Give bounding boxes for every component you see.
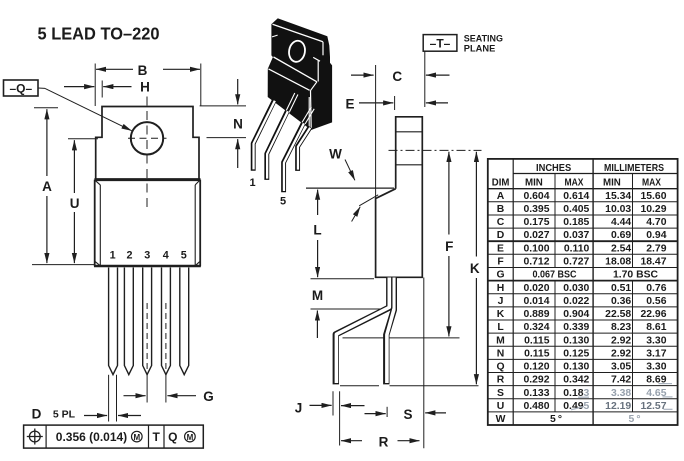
lead 5 front [180, 268, 189, 375]
M modifier 2 [185, 431, 196, 442]
svg-text:0.36: 0.36 [611, 296, 631, 307]
svg-text:SEATING: SEATING [464, 33, 503, 43]
svg-text:2.54: 2.54 [611, 243, 631, 254]
svg-text:C: C [497, 217, 505, 228]
dimension G [124, 389, 214, 404]
svg-text:0.130: 0.130 [563, 362, 589, 373]
svg-text:0.480: 0.480 [523, 401, 549, 412]
dimension J [295, 391, 365, 445]
dimension R [341, 435, 420, 450]
right extension line [423, 278, 425, 449]
3D lead pin3 over-body white edges [286, 93, 298, 113]
svg-text:0.69: 0.69 [611, 230, 631, 241]
lead 4 centerline [165, 303, 167, 374]
svg-text:R: R [497, 375, 505, 386]
svg-text:K: K [470, 261, 480, 276]
3D lead pin3 [267, 111, 288, 180]
hole centerlines [128, 137, 167, 139]
svg-text:0.339: 0.339 [563, 322, 589, 333]
dimension C [351, 69, 450, 84]
svg-text:22.96: 22.96 [640, 309, 666, 320]
mounting hole [131, 122, 163, 154]
svg-text:4: 4 [163, 250, 169, 262]
leader from Q box to hole [38, 87, 45, 89]
svg-text:A: A [497, 191, 505, 202]
svg-text:INCHES: INCHES [536, 163, 571, 174]
svg-text:H: H [140, 80, 150, 95]
svg-text:T: T [153, 430, 161, 444]
3D lead pin5 [284, 123, 304, 192]
svg-text:F: F [445, 239, 453, 254]
svg-text:0.014: 0.014 [523, 296, 549, 307]
ref line bend start [311, 308, 382, 310]
svg-text:0.604: 0.604 [523, 191, 549, 202]
svg-text:N: N [233, 117, 243, 132]
svg-text:0.037: 0.037 [563, 230, 589, 241]
svg-text:E: E [497, 243, 504, 254]
datum T extension line [424, 51, 426, 107]
dimension K [470, 152, 480, 384]
svg-text:G: G [496, 270, 504, 281]
svg-text:2.92: 2.92 [611, 335, 631, 346]
lead 3 front [143, 268, 152, 375]
body top face edges [274, 57, 317, 82]
3D lead pin4 over-body white edge [308, 97, 310, 128]
lead 4 front [162, 268, 171, 375]
position symbol [27, 429, 43, 445]
front face extension line [375, 65, 377, 200]
svg-text:0.020: 0.020 [523, 283, 549, 294]
3D lead pin1 [253, 100, 275, 170]
mounting hole 3D [287, 39, 306, 63]
svg-text:MAX: MAX [642, 178, 661, 189]
svg-text:5: 5 [181, 250, 187, 262]
svg-text:MIN: MIN [525, 178, 543, 189]
svg-text:K: K [497, 309, 505, 320]
svg-text:22.58: 22.58 [605, 309, 631, 320]
svg-text:G: G [203, 389, 214, 404]
grey watermark artifacts [571, 384, 673, 410]
svg-text:0.292: 0.292 [523, 375, 549, 386]
svg-text:12.19: 12.19 [605, 401, 631, 412]
svg-text:0.51: 0.51 [611, 283, 631, 294]
svg-text:5 LEAD TO–220: 5 LEAD TO–220 [38, 24, 160, 44]
svg-text:U: U [70, 196, 80, 211]
svg-text:1: 1 [110, 250, 116, 262]
svg-text:J: J [295, 401, 303, 416]
svg-text:Q: Q [168, 430, 177, 444]
svg-text:0.115: 0.115 [524, 335, 550, 346]
svg-text:E: E [345, 97, 354, 112]
dimension L [313, 190, 321, 278]
dimension D extension lines [108, 375, 110, 422]
svg-text:0.115: 0.115 [524, 348, 550, 359]
package body silhouette [268, 19, 331, 129]
pin numbers front view [110, 250, 187, 262]
dimension H [64, 80, 150, 98]
svg-text:0.110: 0.110 [564, 243, 590, 254]
svg-text:0.125: 0.125 [563, 348, 589, 359]
tab ear mark [272, 35, 278, 37]
dimension N front [200, 79, 246, 168]
front view body [94, 180, 201, 267]
svg-text:U: U [497, 401, 505, 412]
tab right face edge [322, 42, 324, 56]
3D lead pin5 over-body white edges [302, 107, 314, 124]
svg-text:5 PL: 5 PL [53, 408, 76, 420]
feature control frame [24, 425, 204, 448]
svg-text:–T–: –T– [430, 36, 451, 50]
W line [306, 187, 394, 189]
svg-text:C: C [392, 69, 402, 84]
svg-text:L: L [497, 322, 504, 333]
svg-text:0.130: 0.130 [563, 335, 589, 346]
svg-text:0.175: 0.175 [523, 217, 549, 228]
svg-text:W: W [496, 414, 506, 425]
svg-text:0.133: 0.133 [523, 388, 549, 399]
dimension M [312, 288, 323, 338]
lead 3 centerline [146, 303, 148, 374]
svg-text:0.027: 0.027 [523, 230, 549, 241]
svg-text:MIN: MIN [603, 178, 621, 189]
svg-text:W: W [329, 147, 342, 162]
svg-text:F: F [497, 257, 503, 268]
body front-right corner edge [310, 91, 313, 129]
svg-text:0.56: 0.56 [646, 296, 666, 307]
dimension F [445, 152, 453, 337]
dimension A [32, 108, 94, 265]
svg-text:18.47: 18.47 [640, 257, 666, 268]
svg-text:0.495: 0.495 [563, 401, 589, 412]
front view tab outline [96, 107, 199, 179]
svg-text:18.08: 18.08 [605, 257, 631, 268]
lead 1 front [109, 268, 118, 375]
svg-text:M: M [496, 335, 505, 346]
svg-text:0.022: 0.022 [563, 296, 589, 307]
svg-text:0.76: 0.76 [646, 283, 666, 294]
svg-text:D: D [497, 230, 505, 241]
dimension S [365, 407, 447, 422]
3D lead pin4 [298, 127, 311, 171]
svg-text:3.05: 3.05 [611, 362, 631, 373]
svg-text:5 °: 5 ° [550, 414, 562, 425]
svg-text:2.79: 2.79 [646, 243, 666, 254]
svg-text:0.395: 0.395 [523, 204, 549, 215]
dimension B [95, 63, 201, 106]
svg-text:1.70 BSC: 1.70 BSC [613, 270, 658, 281]
svg-text:Q: Q [496, 362, 504, 373]
svg-text:8.61: 8.61 [646, 322, 666, 333]
svg-text:5: 5 [280, 196, 286, 208]
svg-text:DIM: DIM [492, 178, 510, 189]
tab notch [313, 57, 320, 61]
svg-text:R: R [379, 435, 389, 450]
svg-text:0.185: 0.185 [563, 217, 589, 228]
svg-text:1: 1 [249, 177, 255, 189]
svg-text:S: S [497, 388, 504, 399]
lead 2 front [124, 268, 133, 375]
svg-text:MAX: MAX [565, 178, 584, 189]
svg-text:PLANE: PLANE [464, 43, 496, 53]
table header lines [513, 173, 677, 175]
svg-text:3.30: 3.30 [646, 362, 666, 373]
svg-text:4.44: 4.44 [611, 217, 631, 228]
svg-text:10.03: 10.03 [605, 204, 631, 215]
svg-text:0.120: 0.120 [523, 362, 549, 373]
svg-text:4.70: 4.70 [646, 217, 666, 228]
dimension E [345, 96, 448, 112]
svg-text:J: J [498, 296, 504, 307]
tab inner lines [396, 131, 423, 133]
svg-text:0.100: 0.100 [523, 243, 549, 254]
svg-text:0.614: 0.614 [563, 191, 589, 202]
svg-text:0.405: 0.405 [563, 204, 589, 215]
svg-text:2.92: 2.92 [611, 348, 631, 359]
ref line body bottom [311, 278, 375, 280]
svg-text:0.889: 0.889 [523, 309, 549, 320]
dimension U [68, 139, 98, 263]
table row lines [488, 201, 678, 203]
svg-text:D: D [32, 406, 42, 421]
svg-text:8.23: 8.23 [611, 322, 631, 333]
svg-text:0.030: 0.030 [563, 283, 589, 294]
svg-text:0.712: 0.712 [523, 257, 549, 268]
svg-text:L: L [313, 223, 321, 238]
svg-text:M: M [312, 288, 323, 303]
svg-text:0.356 (0.014): 0.356 (0.014) [56, 430, 127, 444]
svg-text:M: M [187, 433, 194, 442]
side lead B [386, 278, 394, 385]
dimension W [329, 147, 378, 222]
svg-text:0.067 BSC: 0.067 BSC [533, 270, 577, 281]
svg-text:3.38: 3.38 [611, 388, 631, 399]
svg-text:M: M [133, 433, 140, 442]
svg-text:H: H [497, 283, 505, 294]
svg-text:3.17: 3.17 [646, 348, 666, 359]
table outer border [488, 159, 678, 425]
svg-text:15.60: 15.60 [640, 191, 666, 202]
svg-text:7.42: 7.42 [611, 375, 631, 386]
datum Q box [4, 80, 39, 96]
side lead A [336, 278, 390, 385]
svg-text:12.57: 12.57 [640, 401, 666, 412]
svg-text:0.342: 0.342 [563, 375, 589, 386]
svg-text:15.34: 15.34 [605, 191, 631, 202]
ref line lead tip [340, 385, 379, 387]
svg-text:MILLIMETERS: MILLIMETERS [604, 163, 664, 174]
dimension D [32, 406, 141, 421]
svg-text:N: N [497, 348, 505, 359]
svg-text:3.30: 3.30 [646, 335, 666, 346]
svg-text:5 °: 5 ° [628, 414, 640, 425]
ref line bend end [343, 337, 460, 339]
svg-text:B: B [138, 63, 148, 78]
svg-text:0.727: 0.727 [563, 257, 589, 268]
svg-text:B: B [497, 204, 505, 215]
tab top face edge [273, 24, 323, 42]
svg-text:–Q–: –Q– [9, 82, 32, 96]
hole centerline side [389, 149, 482, 151]
seating plane datum T box [423, 35, 457, 52]
svg-text:10.29: 10.29 [640, 204, 666, 215]
svg-text:3: 3 [144, 250, 150, 262]
svg-text:0.324: 0.324 [523, 322, 549, 333]
svg-text:0.94: 0.94 [646, 230, 666, 241]
svg-text:2: 2 [126, 250, 132, 262]
M modifier 1 [132, 431, 143, 442]
table column lines [512, 159, 514, 425]
svg-text:0.904: 0.904 [563, 309, 589, 320]
svg-text:A: A [42, 179, 52, 194]
svg-text:S: S [403, 407, 412, 422]
side profile [376, 117, 423, 277]
